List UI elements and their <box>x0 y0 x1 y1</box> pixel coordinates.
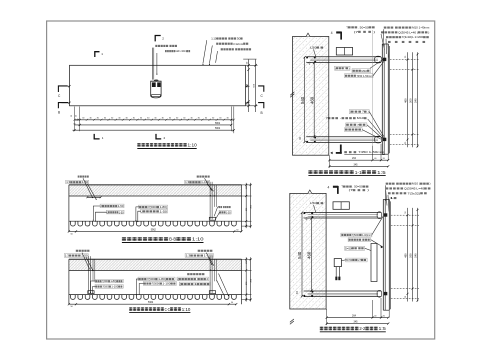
annotation: fixture label row 2 <box>165 50 167 52</box>
bracket arm bolt <box>383 138 386 141</box>
svg-text:1:3: 1:3 <box>186 254 191 258</box>
svg-text:540: 540 <box>414 98 418 103</box>
detail marker 4 (bold) <box>333 186 338 188</box>
music lamp box <box>333 202 349 210</box>
svg-text:1:10: 1:10 <box>182 307 191 312</box>
svg-text:1:5: 1:5 <box>379 326 387 331</box>
right dim line 460 <box>407 208 409 302</box>
svg-text:1-40)mm: 1-40)mm <box>362 233 371 237</box>
svg-text:50: 50 <box>71 115 73 117</box>
section annotation text <box>197 176 199 178</box>
bracket arm anchor dots <box>303 295 305 297</box>
section annotation text <box>141 209 168 213</box>
svg-text:5962: 5962 <box>148 302 154 304</box>
svg-text:7(5000: 7(5000 <box>352 233 360 237</box>
leader: G1 notes to teeth <box>93 206 100 220</box>
svg-text:7(5000: 7(5000 <box>102 285 109 289</box>
leaders from right text stack to channel <box>382 29 385 45</box>
svg-text:264: 264 <box>352 157 357 160</box>
section marker C right <box>258 86 264 92</box>
section: slot junction box <box>209 291 215 294</box>
section annotation text <box>95 279 123 283</box>
svg-text:1-100: 1-100 <box>201 180 210 184</box>
leader A <box>203 40 207 63</box>
svg-text:7(5000: 7(5000 <box>102 279 109 283</box>
section: pavement band bottom line <box>69 269 242 271</box>
bracket arm slot oval <box>375 56 382 63</box>
svg-text:30: 30 <box>133 118 135 120</box>
section: left edge <box>68 259 70 304</box>
svg-text:50: 50 <box>76 115 78 117</box>
svg-text:460: 460 <box>404 98 408 103</box>
vertical section title <box>308 170 312 171</box>
plan vertical dimension line 50/400/50 <box>248 60 250 113</box>
svg-text:540: 540 <box>300 96 305 104</box>
section trace C left stub <box>62 85 70 87</box>
plan bottom dimension extension lines <box>74 107 76 132</box>
plan modular dimension chain 30x <box>75 119 234 121</box>
section annotation text <box>66 180 89 184</box>
bottom dim extension lines <box>326 309 328 325</box>
svg-text:(: ( <box>350 110 351 114</box>
section annotation text <box>64 254 88 258</box>
svg-text:): ) <box>368 110 369 114</box>
svg-text:30: 30 <box>104 118 106 120</box>
svg-text:): ) <box>373 30 375 34</box>
svg-text:M10: M10 <box>357 116 365 120</box>
svg-text:1:3: 1:3 <box>65 254 70 258</box>
svg-text:30: 30 <box>140 118 142 120</box>
section: rib teeth row <box>71 221 237 226</box>
right dim line 500 <box>412 208 414 302</box>
section: rib/teeth top line <box>69 294 242 296</box>
channel upright (steel channel) <box>382 199 384 310</box>
svg-text:): ) <box>428 30 429 34</box>
svg-text:t=12mm: t=12mm <box>233 42 244 46</box>
plan fixture: music lamp body <box>151 81 161 98</box>
svg-text:30: 30 <box>219 118 221 120</box>
bracket arm plate lines <box>306 56 381 58</box>
wall top break mark <box>306 33 310 36</box>
plan vertical dimension line 500 overall <box>255 60 257 113</box>
mid annotation rows 1-1 lower <box>349 110 369 114</box>
right dimension block extension lines (dashed) <box>391 214 419 216</box>
leader: C-C G3 notes to teeth <box>219 274 229 296</box>
svg-text:30: 30 <box>190 118 192 120</box>
section trace C right stub <box>246 85 250 87</box>
svg-text:1-80): 1-80) <box>160 205 168 209</box>
svg-text:2-2: 2-2 <box>359 326 365 331</box>
svg-text:M10 1-40mm: M10 1-40mm <box>412 26 429 30</box>
svg-text:): ) <box>349 66 350 70</box>
svg-text:5862: 5862 <box>215 123 221 125</box>
plan fixture base slot <box>152 95 161 97</box>
section annotation text <box>76 250 78 252</box>
mid annotation boxes 1-1 upper <box>335 66 351 70</box>
section: ground top line <box>69 258 242 260</box>
svg-text:1-80): 1-80) <box>110 279 116 283</box>
svg-text:345: 345 <box>354 321 359 324</box>
section: fixture slot conduit lines <box>209 256 211 293</box>
annotation: fixture label row 1 <box>155 45 157 47</box>
svg-text:7450 1-50mm: 7450 1-50mm <box>356 74 372 78</box>
svg-text:540: 540 <box>414 253 418 258</box>
svg-text:30: 30 <box>97 118 99 120</box>
section trace B left stub <box>62 102 70 104</box>
section: fixture slot conduit lines <box>209 182 211 220</box>
leader: bottom-right note to slot <box>206 253 211 264</box>
section: slot junction box <box>209 217 215 220</box>
svg-text:4: 4 <box>328 185 330 189</box>
svg-text:1-50: 1-50 <box>82 180 89 184</box>
leader: mid-left note to pavement anchor <box>83 178 92 197</box>
section annotation text <box>100 204 124 208</box>
svg-text:7(5000: 7(5000 <box>152 282 160 286</box>
svg-text:7(3x32)L 1=200: 7(3x32)L 1=200 <box>402 35 424 39</box>
section marker 2 (top) <box>155 36 161 42</box>
svg-text:1:10: 1:10 <box>211 37 217 41</box>
section annotation text <box>177 277 209 281</box>
detail marker 4 (bold) <box>336 31 341 33</box>
leader: mid-right note to slot <box>205 178 212 189</box>
small embedded bar with ticks <box>87 196 100 198</box>
annotation: pavement note B <box>216 43 218 45</box>
bracket arm plate lines <box>304 290 381 292</box>
wall hatch (reinforced concrete wall) <box>293 37 329 156</box>
svg-text:B: B <box>58 110 60 114</box>
music lamp box <box>336 48 352 56</box>
svg-text:30: 30 <box>198 118 200 120</box>
svg-text:1:10: 1:10 <box>188 143 198 148</box>
section annotation text <box>139 205 168 209</box>
svg-text:D=50: D=50 <box>345 246 352 250</box>
svg-text:30: 30 <box>205 118 207 120</box>
section: rib/teeth top line <box>69 220 242 222</box>
svg-text:(: ( <box>180 282 181 286</box>
section annotation text <box>106 210 124 214</box>
svg-text:30: 30 <box>147 118 149 120</box>
section marker 1 (bottom) <box>94 134 99 139</box>
bracket arm bolt <box>384 292 387 295</box>
section annotation text <box>185 254 213 258</box>
plan view: light strip body <box>70 65 246 106</box>
svg-text:7(5000: 7(5000 <box>148 205 157 209</box>
svg-text:1:5: 1:5 <box>377 170 386 175</box>
section: right edge <box>241 259 243 304</box>
section annotation text <box>143 282 176 286</box>
svg-text:Q(3045 L=40: Q(3045 L=40 <box>404 187 425 191</box>
section: bottom dimension line <box>69 230 242 232</box>
svg-text:30: 30 <box>227 118 229 120</box>
svg-text:1-50: 1-50 <box>81 254 88 258</box>
svg-text:. 50=50: . 50=50 <box>358 25 370 29</box>
conduit pipe rectangle <box>371 244 377 282</box>
dimension 540 vertical <box>304 57 306 143</box>
section: right dimension line segments <box>245 257 247 301</box>
section annotation text <box>219 210 231 214</box>
bottom overall dimension line 345 <box>327 323 389 325</box>
leader: C-C G1 notes to teeth <box>91 281 96 292</box>
svg-text:500: 500 <box>409 98 413 103</box>
section: rib teeth row <box>71 295 237 300</box>
section marker 2 (bottom) <box>156 134 161 139</box>
svg-text:7450 1-50mm: 7450 1-50mm <box>358 150 384 154</box>
right dim line 500 <box>412 52 414 147</box>
section: right dim extension lines <box>242 184 252 186</box>
svg-text:M10: M10 <box>361 69 367 73</box>
svg-text:30: 30 <box>82 118 84 120</box>
section: pavement hatch band <box>69 185 241 195</box>
wall top break mark <box>308 190 312 193</box>
svg-text:1-1: 1-1 <box>355 170 363 175</box>
svg-text:540: 540 <box>297 251 302 259</box>
title: plan view 1:10 <box>137 143 140 144</box>
section marker C left <box>58 86 67 92</box>
section: right dim extension lines <box>242 258 252 260</box>
svg-text:1-100: 1-100 <box>162 282 171 286</box>
leader to fixture 1 <box>151 48 153 80</box>
leader: C-C G2 notes to teeth <box>136 279 138 294</box>
svg-text:): ) <box>367 188 369 192</box>
leader B <box>209 45 212 63</box>
svg-text:5962: 5962 <box>215 128 221 130</box>
plan fixture top cable gland <box>154 80 159 82</box>
leader: bottom-left note to slot <box>82 253 89 268</box>
leader C <box>216 51 218 63</box>
plan overall dimension line 5862 <box>75 124 232 126</box>
section: right overall dimension line <box>250 257 252 301</box>
svg-text:7(3x32): 7(3x32) <box>408 191 421 195</box>
section: ground top line <box>69 184 242 186</box>
svg-text:M10 (: M10 ( <box>412 182 420 186</box>
plan fixture terminals (dark squares) <box>152 82 156 87</box>
dimension 540 vertical <box>301 212 303 296</box>
wall bottom break mark 2-2 <box>290 321 294 324</box>
annotation: pavement note C <box>221 48 223 50</box>
svg-text:B: B <box>261 111 263 115</box>
svg-text:1:3: 1:3 <box>185 180 190 184</box>
section: right edge <box>241 185 243 232</box>
section title <box>129 307 132 308</box>
bracket arm slot oval <box>377 212 382 219</box>
plan right side dimension extension top <box>243 58 256 60</box>
bracket arm plate lines <box>306 136 381 138</box>
section: bottom dimension line <box>69 303 236 305</box>
leaders lower mid to bottom bolt <box>369 112 384 137</box>
right dim line 540 <box>417 208 419 302</box>
bracket arm anchor dots <box>306 57 308 59</box>
svg-text:30: 30 <box>162 118 164 120</box>
svg-text:C-C: C-C <box>165 307 170 312</box>
svg-text:345: 345 <box>354 163 359 166</box>
note row beside L marker <box>344 151 347 153</box>
bracket arm anchor dots <box>303 212 305 214</box>
svg-text:30: 30 <box>111 118 113 120</box>
dimension 460 vertical <box>311 218 313 291</box>
svg-text:30: 30 <box>176 118 178 120</box>
svg-text:1-50: 1-50 <box>160 209 168 213</box>
svg-text:Q(3045 L=40 (: Q(3045 L=40 ( <box>398 30 418 34</box>
section: slot junction box <box>88 291 94 294</box>
vertical section title <box>320 327 324 328</box>
junction device stem <box>335 267 337 277</box>
leaders upper mid to bolt <box>370 59 384 69</box>
svg-text:L50: L50 <box>310 201 317 205</box>
svg-text:1-100: 1-100 <box>204 254 214 258</box>
svg-text:30: 30 <box>154 118 156 120</box>
bottom dimension line 264/40/20 <box>329 159 388 161</box>
bracket arm bolt <box>384 213 387 216</box>
section annotation text <box>179 282 210 286</box>
svg-text:30: 30 <box>212 118 214 120</box>
svg-text:30: 30 <box>183 118 185 120</box>
dimension 460 vertical <box>313 62 315 136</box>
bracket arm anchor dots <box>306 141 308 143</box>
svg-text:1-100: 1-100 <box>111 285 118 289</box>
bottom overall dimension line 345 <box>329 165 388 167</box>
section annotation text <box>95 285 123 289</box>
svg-text:460: 460 <box>307 251 312 259</box>
svg-text:30: 30 <box>118 118 120 120</box>
drawing: section 1-1 1:5 <box>290 25 429 175</box>
svg-text:30: 30 <box>169 118 171 120</box>
svg-text:1-50: 1-50 <box>226 210 231 214</box>
svg-text:1-50: 1-50 <box>118 204 124 208</box>
leaders mid 2-2 to bolt and conduit <box>372 216 383 234</box>
svg-text:30: 30 <box>237 37 241 41</box>
wall hatch (reinforced concrete wall) <box>290 193 326 309</box>
svg-text:7(5000: 7(5000 <box>147 277 156 281</box>
page border frame <box>47 21 435 339</box>
leader: G2 notes to teeth <box>136 207 139 220</box>
right dim line 460 <box>407 52 409 147</box>
drawing: section 2-2 1:5 <box>290 182 431 332</box>
section: right overall dimension line <box>250 183 252 228</box>
bottom dimension line 264/40/20 <box>327 317 389 319</box>
section title <box>122 237 126 238</box>
section annotation text <box>138 277 175 281</box>
bracket arm slot oval <box>375 136 382 143</box>
section: pavement hatch band <box>69 260 241 270</box>
extension line from top text <box>372 30 374 160</box>
svg-text:(: ( <box>178 277 179 281</box>
svg-text:1:3: 1:3 <box>66 180 71 184</box>
bottom dim extension lines <box>328 155 330 168</box>
svg-text:460: 460 <box>404 253 408 258</box>
section annotation text <box>78 176 80 178</box>
leader to fixture 2 <box>156 53 158 74</box>
section annotation text <box>185 180 210 184</box>
leader: G3 notes to slot bottom <box>214 207 217 216</box>
svg-text:B-B: B-B <box>169 237 176 242</box>
drawing: section B-B 1:10 <box>66 176 253 243</box>
section marker B right <box>258 103 264 109</box>
wall left edge break mark <box>290 94 294 97</box>
plan overall dimension line 5962 <box>73 129 234 131</box>
detail marker L (bold) near 1-1 bottom <box>340 145 342 154</box>
right dim line 540 <box>417 52 419 147</box>
section trace B right stub <box>246 102 250 104</box>
section annotation text <box>187 273 189 275</box>
junction device contacts <box>335 277 337 281</box>
svg-text:264: 264 <box>352 315 357 318</box>
svg-text:L50: L50 <box>310 46 317 50</box>
svg-text:LED L=100m: LED L=100m <box>176 49 187 53</box>
bracket arm bolt <box>383 58 386 61</box>
svg-text:1-50: 1-50 <box>119 210 124 214</box>
junction device box <box>334 259 341 267</box>
svg-text:(: ( <box>335 66 336 70</box>
plan right dim extension at bottom edge <box>246 105 258 107</box>
section: pavement band bottom line <box>69 195 242 197</box>
bracket arm slot oval <box>377 290 382 297</box>
drawing: section C-C 1:10 <box>64 250 252 313</box>
section: left edge <box>68 185 70 232</box>
channel upright (steel channel) <box>381 44 383 154</box>
svg-text:. 50=50: . 50=50 <box>352 185 363 189</box>
section marker 1 (top) <box>95 52 100 57</box>
bracket arm plate lines <box>304 211 381 213</box>
section annotation text <box>198 250 200 252</box>
svg-text:460: 460 <box>309 96 314 104</box>
right dimension block extension lines (dashed) <box>390 59 419 61</box>
svg-text:5962: 5962 <box>151 229 157 231</box>
section marker B left <box>58 103 68 109</box>
svg-text:D=50: D=50 <box>346 258 353 262</box>
section: right dimension line segments <box>245 183 247 228</box>
svg-text:): ) <box>429 182 430 186</box>
leaders from right text stack to channel 2-2 <box>385 185 387 201</box>
svg-text:500: 500 <box>409 253 413 258</box>
svg-text:30: 30 <box>89 118 91 120</box>
svg-text:1-80): 1-80) <box>158 277 166 281</box>
svg-text:4: 4 <box>331 31 333 35</box>
section: fixture slot conduit lines <box>88 256 90 293</box>
mid annotation rows 2-2 <box>341 233 372 237</box>
plan right dim extension at top edge <box>246 64 258 66</box>
svg-text:30: 30 <box>126 118 128 120</box>
leader from device note <box>342 259 347 262</box>
svg-text:1:10: 1:10 <box>192 237 204 242</box>
